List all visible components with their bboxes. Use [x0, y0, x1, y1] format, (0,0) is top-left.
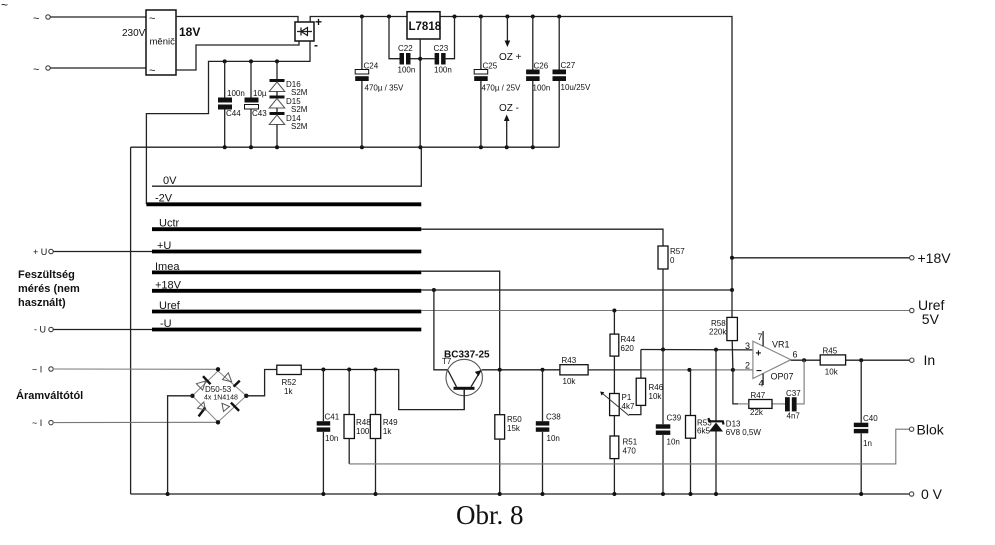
svg-text:10k: 10k	[649, 392, 663, 401]
svg-text:~ I: ~ I	[32, 365, 42, 375]
terminal +U	[33, 247, 152, 257]
svg-text:4x 1N4148: 4x 1N4148	[204, 395, 238, 402]
svg-text:+: +	[756, 349, 762, 360]
svg-text:3: 3	[745, 341, 750, 351]
svg-text:C38: C38	[546, 413, 561, 422]
svg-text:470µ / 25V: 470µ / 25V	[482, 84, 522, 93]
svg-text:C40: C40	[863, 414, 878, 423]
node dot bridge left vertex	[190, 394, 194, 398]
svg-text:100: 100	[356, 427, 370, 436]
wire opamp non-inverting input	[641, 349, 753, 351]
svg-text:~: ~	[1, 0, 8, 12]
svg-text:22k: 22k	[750, 408, 764, 417]
wire bridge right vertex to R52	[246, 370, 276, 396]
bus +U	[152, 240, 421, 252]
svg-text:4: 4	[759, 379, 764, 389]
svg-text:Imea: Imea	[155, 261, 180, 273]
diode D14 S2M	[269, 108, 308, 147]
svg-text:2: 2	[745, 361, 750, 371]
svg-text:In: In	[924, 352, 936, 368]
wire R52 to T7 base	[301, 370, 464, 410]
svg-text:~: ~	[149, 13, 155, 25]
node dots on base wire	[321, 368, 377, 372]
svg-text:- U: - U	[34, 325, 46, 335]
bus -U	[152, 318, 421, 330]
wire 0V bottom rail	[131, 493, 910, 495]
wire Uctr extension to R57	[421, 229, 663, 246]
svg-text:C43: C43	[252, 109, 267, 118]
bus -2V	[146, 193, 421, 205]
svg-text:7: 7	[758, 332, 763, 342]
potentiometer P1 4k7	[600, 392, 635, 416]
svg-text:6k5: 6k5	[697, 427, 710, 436]
svg-text:OZ +: OZ +	[499, 52, 522, 63]
svg-text:R49: R49	[383, 418, 398, 427]
svg-text:R50: R50	[507, 415, 522, 424]
svg-text:VR1: VR1	[772, 340, 790, 350]
capacitor C27 10u/25V	[553, 17, 591, 148]
svg-text:-2V: -2V	[155, 193, 173, 205]
node dots on 0V top rail	[223, 145, 535, 149]
svg-text:R52: R52	[282, 378, 297, 387]
terminal +18V	[910, 250, 952, 266]
svg-text:měnič: měnič	[150, 37, 176, 48]
svg-text:mérés (nem: mérés (nem	[18, 283, 80, 295]
wire Imea extension down to T7 emitter node	[421, 271, 499, 370]
capacitor C26 100n	[526, 17, 550, 148]
wire R45 to In terminal	[846, 359, 910, 361]
resistor R58 220k	[709, 317, 737, 370]
wire 0V top rail	[131, 146, 560, 148]
svg-text:Feszültség: Feszültség	[18, 269, 75, 281]
svg-text:10n: 10n	[547, 434, 560, 443]
svg-text:18V: 18V	[179, 25, 200, 39]
resistor R49 1k	[370, 370, 398, 495]
svg-text:R45: R45	[823, 347, 838, 356]
voltage regulator U2 L7818	[407, 12, 442, 39]
node dots on inverting input wire	[687, 368, 735, 372]
resistor R44 620	[610, 311, 636, 394]
wire R43 to opamp inverting input	[588, 369, 640, 371]
svg-text:Uref: Uref	[159, 300, 181, 312]
node dots on minus wire	[223, 59, 279, 63]
node dots on +18V top rail	[360, 15, 561, 19]
wire bridge left vertex to 0V rail	[168, 396, 193, 494]
svg-text:0V: 0V	[163, 175, 177, 187]
capacitor C41 10n	[317, 370, 340, 495]
svg-text:~: ~	[149, 65, 155, 77]
node dots on +18V extension	[432, 288, 734, 292]
svg-text:C24: C24	[364, 62, 379, 71]
resistor R50 15k	[495, 370, 522, 494]
svg-text:R47: R47	[751, 391, 766, 400]
wire opamp output	[791, 359, 820, 361]
node dot on +18V vertical	[730, 256, 734, 260]
node dot C40 branch	[859, 358, 863, 362]
resistor R53 6k5	[686, 370, 713, 494]
terminal 0V	[909, 486, 942, 502]
diode D16 S2M	[269, 61, 308, 97]
op-amp VR1 OP07	[745, 331, 798, 389]
svg-text:+18V: +18V	[918, 250, 952, 266]
svg-text:10µ: 10µ	[253, 89, 267, 98]
svg-text:~: ~	[33, 64, 39, 76]
bus +18V	[152, 279, 421, 291]
node dot R44 on Uref line	[612, 309, 616, 313]
terminal Blok	[909, 422, 944, 438]
node C22/C23/gnd junction	[418, 57, 422, 61]
terminal -U	[34, 325, 152, 335]
svg-text:+ U: + U	[33, 247, 47, 257]
node dots on non-inverting wire	[661, 348, 718, 352]
wire +18V vertical to R58	[731, 290, 733, 317]
capacitor C43 10u	[245, 61, 268, 147]
wire T7 emitter to R43	[482, 369, 560, 371]
svg-text:230V: 230V	[122, 28, 146, 39]
capacitor C38 10n	[536, 370, 561, 494]
svg-text:C37: C37	[786, 389, 801, 398]
terminal Uref 5V	[910, 297, 945, 327]
capacitor C23 100n	[420, 17, 454, 75]
svg-text:C27: C27	[561, 61, 576, 70]
resistor R51 470	[610, 416, 638, 494]
rectifier bridge D50-53 4x 1N4148	[192, 371, 246, 422]
svg-text:OZ -: OZ -	[499, 103, 519, 114]
wire transformer bottom output to bridge	[176, 41, 299, 70]
capacitor C44 100n	[218, 61, 245, 147]
svg-text:5V: 5V	[922, 311, 940, 327]
bus Imea	[152, 261, 421, 273]
svg-text:C39: C39	[667, 414, 682, 423]
svg-text:+18V: +18V	[155, 279, 182, 291]
svg-text:R43: R43	[562, 356, 577, 365]
svg-text:100n: 100n	[434, 66, 452, 75]
resistor R43 10k	[560, 356, 588, 386]
svg-text:-: -	[314, 38, 318, 52]
svg-text:100n: 100n	[227, 89, 245, 98]
svg-text:OP07: OP07	[771, 372, 794, 382]
capacitor C40 1n	[854, 360, 878, 494]
terminal In	[910, 352, 936, 368]
svg-text:R48: R48	[356, 418, 371, 427]
svg-text:4k7: 4k7	[622, 402, 635, 411]
svg-text:C25: C25	[483, 62, 498, 71]
resistor R57 0	[658, 246, 685, 350]
svg-text:C26: C26	[534, 62, 549, 71]
svg-text:4n7: 4n7	[787, 412, 801, 421]
node dot output	[802, 358, 806, 362]
svg-text:1k: 1k	[383, 427, 392, 436]
diode D15 S2M	[269, 92, 308, 115]
wire AC2 to transformer	[50, 67, 146, 69]
svg-text:P1: P1	[622, 393, 632, 402]
svg-text:használt): használt)	[18, 297, 66, 309]
svg-text:~ I: ~ I	[32, 418, 42, 428]
transistor T7 BC337-25	[442, 350, 490, 410]
wire ~I lower to bridge bottom	[53, 421, 218, 423]
resistor R52 1k	[277, 365, 301, 396]
label Feszultseg meres (nem hasznalt)	[18, 269, 80, 309]
svg-text:6V8 0,5W: 6V8 0,5W	[726, 428, 762, 437]
svg-text:10u/25V: 10u/25V	[561, 83, 591, 92]
svg-text:S2M: S2M	[291, 105, 308, 114]
wire +18V branch to T7 collector	[434, 290, 448, 370]
svg-text:470µ / 35V: 470µ / 35V	[365, 84, 405, 93]
svg-text:−: −	[756, 366, 762, 377]
bus Uctr	[152, 218, 421, 230]
svg-text:D50-53: D50-53	[205, 385, 232, 394]
capacitor C37 4n7	[772, 389, 801, 421]
wire Uref extension to terminal	[421, 310, 909, 312]
svg-text:220k: 220k	[709, 328, 727, 337]
measurement point OZ+ arrow	[499, 17, 522, 64]
wire AC1 to transformer	[50, 16, 146, 18]
resistor R47 22k	[733, 370, 772, 417]
capacitor C24 470u/35V	[355, 17, 404, 148]
wire Blok net	[349, 429, 909, 464]
terminal ~I lower	[32, 418, 53, 428]
svg-text:10k: 10k	[563, 377, 577, 386]
svg-text:C22: C22	[398, 44, 413, 53]
svg-text:R44: R44	[621, 335, 636, 344]
svg-text:C44: C44	[226, 109, 241, 118]
svg-text:100n: 100n	[533, 84, 551, 93]
resistor R45 10k	[820, 347, 845, 377]
svg-text:620: 620	[621, 344, 635, 353]
svg-text:-U: -U	[160, 318, 172, 330]
wire +18V extension to right vertical	[421, 289, 732, 291]
svg-text:15k: 15k	[507, 424, 521, 433]
wire transformer top output to bridge	[176, 17, 298, 23]
zener diode D13 6V8 0,5W	[709, 350, 762, 494]
svg-text:C41: C41	[325, 413, 340, 422]
svg-text:10n: 10n	[667, 438, 680, 447]
measurement point OZ- arrow	[499, 103, 519, 147]
svg-text:S2M: S2M	[291, 88, 308, 97]
svg-text:Áramváltótól: Áramváltótól	[16, 389, 83, 402]
svg-text:1n: 1n	[863, 439, 872, 448]
svg-text:R57: R57	[670, 247, 685, 256]
svg-text:S2M: S2M	[291, 122, 308, 131]
svg-text:Blok: Blok	[917, 422, 945, 438]
wire feedback loop	[797, 360, 804, 404]
wire left 0V vertical	[130, 147, 132, 494]
wire L7818 ground pin	[419, 39, 421, 147]
svg-text:10k: 10k	[825, 368, 839, 377]
wire ~I upper to bridge top	[53, 368, 218, 370]
svg-text:10n: 10n	[325, 434, 338, 443]
terminal AC input 1	[33, 13, 50, 25]
rectifier bridge B1 (box with diode)	[295, 15, 322, 52]
svg-text:6: 6	[793, 350, 798, 360]
svg-text:0 V: 0 V	[921, 486, 943, 502]
wire bridge plus output to +18V top rail	[310, 17, 407, 23]
wire bridge minus output	[146, 41, 310, 204]
svg-text:+U: +U	[157, 240, 171, 252]
terminal ~I upper	[32, 365, 53, 375]
svg-text:~: ~	[33, 13, 39, 25]
capacitor C25 470u/25V	[474, 17, 521, 148]
svg-text:C23: C23	[434, 44, 449, 53]
node dot bridge bottom vertex	[216, 420, 220, 424]
capacitor C22 100n	[389, 17, 420, 75]
wire R46 branch from non-inverting node	[640, 350, 642, 379]
svg-text:470: 470	[623, 447, 637, 456]
capacitor C39 10n	[656, 350, 682, 495]
resistor R46 10k	[629, 378, 664, 414]
resistor R48 100	[344, 370, 371, 464]
svg-text:Obr. 8: Obr. 8	[456, 500, 524, 530]
svg-text:Uctr: Uctr	[159, 218, 180, 230]
node dots on 0V bottom rail	[166, 492, 864, 496]
svg-text:100n: 100n	[398, 66, 416, 75]
terminal AC input 2	[33, 64, 50, 76]
svg-text:L7818: L7818	[409, 21, 442, 33]
svg-text:0: 0	[670, 256, 675, 265]
bus Uref	[152, 300, 421, 312]
svg-text:1k: 1k	[284, 387, 293, 396]
node dots on emitter wire	[498, 368, 545, 372]
svg-text:R51: R51	[623, 438, 638, 447]
wire +18V top rail from L7818 out to right vertical	[440, 17, 732, 291]
transformer TR1 menic 230V/18V	[122, 10, 200, 77]
svg-text:R46: R46	[649, 383, 664, 392]
bus 0V horizontal	[152, 147, 421, 187]
node dot bridge right vertex	[244, 394, 248, 398]
svg-text:T7: T7	[442, 357, 452, 366]
wire +18V to terminal	[732, 257, 910, 259]
node dot bridge top vertex	[216, 367, 220, 371]
